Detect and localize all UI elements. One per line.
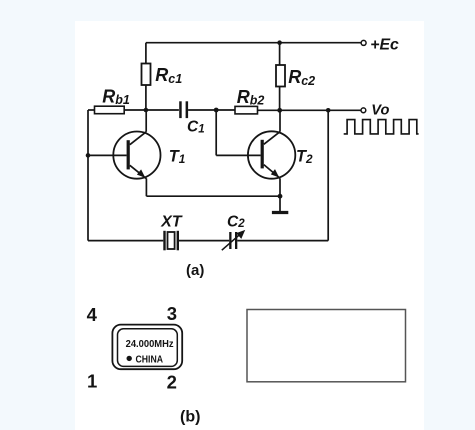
blank module rectangle [247, 310, 406, 382]
svg-text:(b): (b) [180, 409, 200, 426]
bullet dot [127, 356, 132, 361]
transistor T2 [248, 131, 295, 178]
wire collector node to C1 [146, 109, 179, 111]
wire junction to Rb2 [216, 109, 235, 111]
wire T2 base horizontal [216, 154, 260, 156]
wire top supply rail [146, 42, 361, 44]
crystal package outline [112, 325, 182, 370]
node T2 collector junction [277, 108, 282, 113]
wire left feedback vertical [87, 110, 89, 241]
node output feedback tap [326, 108, 331, 113]
wire tap to Vo terminal [328, 109, 361, 111]
wire Rb1 to collector node [124, 109, 146, 111]
resistor Rc2 [276, 43, 285, 111]
svg-text:3: 3 [167, 303, 177, 324]
capacitor C2 trimmer [222, 230, 245, 250]
wire T1 base [88, 154, 127, 156]
node emitter junction [278, 194, 283, 199]
svg-text:XT: XT [160, 214, 183, 231]
resistor Rb1 [95, 106, 125, 114]
ground [272, 196, 288, 212]
waveform Vo square wave [344, 120, 419, 134]
terminal +Ec [361, 40, 366, 45]
wire emitter rail [146, 195, 280, 197]
svg-text:1: 1 [87, 370, 97, 391]
transistor T1 [113, 132, 160, 179]
svg-text:+Ec: +Ec [370, 37, 399, 54]
svg-text:4: 4 [87, 304, 98, 325]
wire C1 to junction [188, 109, 216, 111]
node T1 base tap [86, 153, 91, 158]
resistor Rb2 [235, 106, 258, 114]
wire Rb2 to T2 collector node [258, 109, 280, 111]
wire T2 node to feedback tap [280, 109, 329, 111]
wire XT to C2 [179, 240, 229, 242]
wire C2 to right vertical [237, 240, 328, 242]
wire mid rail left corner [88, 109, 95, 111]
node C1 / Rb2 / T2 base junction [214, 108, 219, 113]
wire T1 collector [145, 110, 147, 132]
svg-text:24.000MHz: 24.000MHz [126, 339, 174, 350]
node Rc2 top junction [277, 40, 282, 45]
svg-text:CHINA: CHINA [136, 353, 164, 365]
terminal Vo [361, 108, 366, 113]
resistor Rc1 [142, 43, 151, 110]
svg-text:(a): (a) [186, 262, 204, 279]
capacitor C1 [179, 101, 188, 118]
crystal XT [163, 231, 179, 251]
wire bottom left segment [88, 240, 163, 242]
svg-text:Vo: Vo [371, 102, 389, 118]
wire T2 emitter down [279, 178, 281, 196]
wire right feedback vertical [327, 110, 329, 240]
wire T2 base vertical [215, 110, 217, 155]
wire T2 collector [279, 110, 281, 131]
node T1 collector junction [144, 108, 149, 113]
svg-text:2: 2 [167, 371, 177, 392]
wire T1 emitter down [145, 179, 147, 197]
